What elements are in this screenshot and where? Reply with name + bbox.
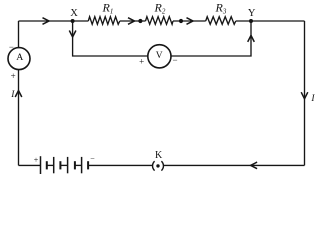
wire right side (304, 21, 306, 165)
voltmeter V1 circle (148, 45, 171, 68)
battery long plate 2 (53, 157, 55, 173)
arrow up on Y branch (248, 35, 255, 42)
battery long plate 4 (81, 157, 83, 173)
wire X to voltmeter corner (73, 21, 148, 56)
arrow after R1 (128, 18, 135, 25)
battery short plate 4 (87, 161, 89, 169)
wire key to bottom-right corner (164, 164, 305, 166)
wire bottom-left to battery (19, 164, 41, 166)
wire top-left segment (19, 20, 89, 22)
svg-text:+: + (139, 56, 144, 66)
battery inter-cell wire 3 (75, 164, 82, 166)
svg-text:−: − (172, 55, 177, 65)
battery short plate 3 (74, 161, 76, 169)
wire between R2 and R3 (173, 20, 206, 22)
resistor R2 (146, 17, 174, 25)
ammeter A1 circle (8, 48, 30, 70)
battery inter-cell wire 1 (47, 164, 54, 166)
battery short plate 1 (46, 161, 48, 169)
wire voltmeter to Y (171, 21, 251, 56)
battery long plate 3 (67, 157, 69, 173)
svg-text:A: A (16, 52, 23, 63)
svg-text:−: − (9, 42, 14, 52)
arrow after R2 junction (187, 18, 194, 25)
battery inter-cell wire 2 (60, 164, 67, 166)
wire between R1 and R2 (120, 20, 146, 22)
battery short plate 2 (59, 161, 61, 169)
wire left side below ammeter (18, 69, 20, 165)
wire top-right segment (236, 20, 305, 22)
arrow left on bottom wire (251, 162, 258, 169)
node X dot (71, 19, 75, 23)
svg-text:K: K (155, 150, 163, 161)
resistor R1 (88, 17, 120, 25)
arrow on top-left wire (43, 18, 50, 25)
resistor R3 (206, 17, 236, 25)
arrow down on X branch (69, 31, 76, 38)
key K plug dot (156, 164, 159, 167)
arrow up on left wire (15, 91, 22, 98)
junction dot between R1 and R2 (138, 19, 142, 23)
svg-text:−: − (90, 154, 95, 163)
key K left paren (153, 161, 155, 170)
junction dot between R2 and R3 (179, 19, 183, 23)
battery cell plates (41, 156, 89, 174)
key K right paren (161, 161, 163, 170)
svg-text:+: + (11, 71, 16, 81)
wire left side above ammeter (18, 21, 20, 48)
battery long plate 1 (40, 156, 42, 174)
svg-text:Y: Y (248, 8, 256, 19)
arrow down on right wire (301, 92, 308, 99)
wire battery to key (88, 164, 152, 166)
svg-text:X: X (70, 8, 78, 19)
svg-text:V: V (156, 51, 163, 61)
node Y dot (249, 19, 253, 23)
svg-text:+: + (34, 156, 39, 165)
